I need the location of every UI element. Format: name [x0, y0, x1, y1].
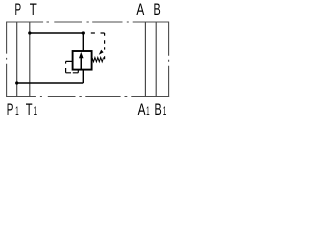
plate boundary top chain line	[7, 21, 169, 23]
svg-text:A: A	[138, 101, 146, 119]
node junction on P line	[15, 81, 18, 84]
svg-text:B: B	[155, 101, 162, 119]
relief valve body square	[73, 51, 92, 70]
pilot line dashed horizontal	[91, 32, 105, 34]
node junction on T line	[28, 31, 31, 34]
svg-text:P: P	[7, 101, 14, 119]
wire T port through-line	[29, 22, 31, 97]
pilot arrowhead onto spring	[99, 50, 104, 55]
svg-text:1: 1	[15, 104, 19, 118]
wire valve outlet to T line	[30, 33, 84, 52]
relief valve flow arrow	[79, 52, 84, 69]
svg-text:A: A	[136, 1, 144, 19]
node pilot tap junction	[82, 31, 85, 34]
plate boundary bottom chain line	[7, 96, 170, 98]
svg-text:T: T	[26, 101, 33, 119]
svg-text:B: B	[154, 1, 161, 19]
svg-text:1: 1	[34, 104, 38, 118]
svg-text:T: T	[30, 1, 37, 19]
relief valve spring	[92, 58, 104, 62]
drain line dashed	[66, 61, 79, 72]
plate boundary left chain line	[6, 22, 8, 98]
svg-text:1: 1	[146, 104, 150, 118]
svg-text:P: P	[15, 1, 22, 19]
plate boundary right chain line	[168, 22, 170, 98]
wire valve inlet from P line	[17, 69, 84, 83]
svg-text:1: 1	[163, 104, 167, 118]
pilot line dashed vertical	[104, 33, 106, 59]
wire A port through-line	[144, 22, 146, 97]
wire P port through-line	[16, 22, 18, 97]
wire B port through-line	[155, 22, 157, 97]
